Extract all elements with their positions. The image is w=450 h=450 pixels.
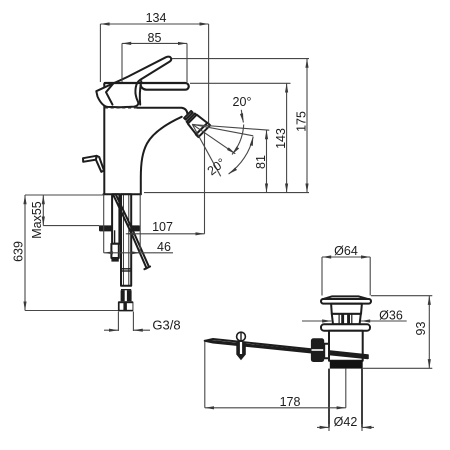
svg-text:134: 134: [146, 11, 167, 25]
svg-text:G3/8: G3/8: [152, 317, 180, 332]
svg-text:Ø64: Ø64: [334, 244, 358, 258]
svg-text:20°: 20°: [233, 95, 252, 109]
svg-text:175: 175: [295, 111, 309, 132]
svg-text:178: 178: [280, 395, 301, 409]
svg-text:Max55: Max55: [30, 201, 44, 239]
svg-text:Ø42: Ø42: [334, 415, 358, 429]
svg-text:85: 85: [148, 31, 162, 45]
svg-text:143: 143: [274, 128, 288, 149]
svg-text:Ø36: Ø36: [379, 308, 403, 322]
svg-text:46: 46: [157, 240, 171, 254]
svg-text:93: 93: [414, 322, 428, 336]
svg-text:639: 639: [12, 241, 26, 262]
svg-text:81: 81: [254, 155, 268, 169]
svg-text:107: 107: [152, 220, 173, 234]
